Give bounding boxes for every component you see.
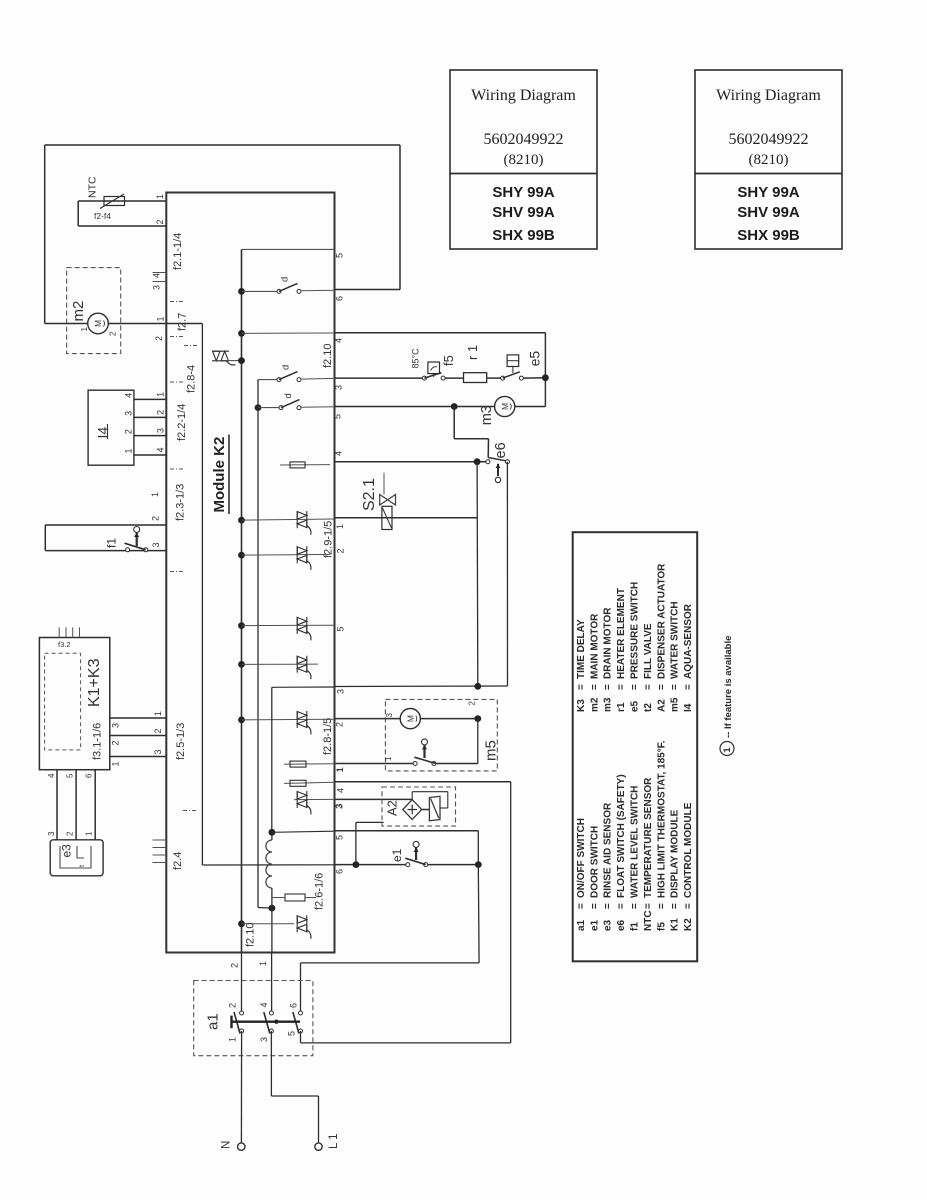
svg-text:m5: m5 [670,697,681,712]
e1 plunger [413,841,419,847]
note: if feature available [720,742,734,756]
title box [695,70,842,249]
svg-text:1: 1 [155,392,165,397]
d switch 1 [238,288,245,295]
group separators [170,301,183,303]
svg-text:r1: r1 [616,702,627,712]
svg-text:SHX 99B: SHX 99B [492,227,555,244]
NTC resistor body [104,197,125,206]
svg-text:=: = [683,903,694,909]
svg-text:6: 6 [335,869,345,874]
wire pin5 y=830.8 [335,830,479,832]
svg-text:3: 3 [124,411,134,416]
svg-text:85°C: 85°C [411,348,421,369]
wire+triac y=664.4 [238,661,245,668]
wire m5 motor y=718.6 [335,718,401,720]
svg-text:A2: A2 [656,699,667,712]
terminal N [238,1143,245,1150]
f2.4 stubs [153,839,167,841]
a1 pole 2 [269,1011,273,1015]
wire heater loop top [335,332,546,334]
triac a [297,617,311,641]
svg-text:e5: e5 [630,700,641,712]
wire y=1042.9 [301,1042,511,1044]
svg-text:Wiring Diagram: Wiring Diagram [716,87,821,104]
wire+triac y=520 [238,517,245,524]
svg-text:1: 1 [335,767,345,772]
wire A2 y=799.4 [335,798,413,800]
svg-text:HEATER ELEMENT: HEATER ELEMENT [616,588,627,679]
wire pin5 from coil top [272,831,335,832]
legend box [573,532,698,961]
svg-text:e6: e6 [493,442,509,458]
resistor on e6 wire inside module [280,464,330,466]
svg-text:f2.8-1/5: f2.8-1/5 [322,718,334,755]
svg-text:=: = [576,684,587,690]
svg-text:K3: K3 [576,699,587,712]
triac c [297,711,311,735]
a1 pole 1 [240,1011,244,1015]
svg-text:f3.1-1/6: f3.1-1/6 [91,723,103,760]
svg-text:WATER LEVEL SWITCH: WATER LEVEL SWITCH [630,786,641,898]
svg-text:=: = [630,684,641,690]
svg-text:FLOAT SWITCH (SAFETY): FLOAT SWITCH (SAFETY) [616,774,627,898]
display module K1+K3 box [39,638,109,770]
svg-text:=: = [656,903,667,909]
svg-text:3: 3 [334,385,344,390]
NTC temperature sensor loop [78,200,166,202]
svg-text:a1: a1 [204,1013,221,1030]
a1 pole 3 [299,1011,303,1015]
triac f2.8-4 [212,351,236,365]
svg-text:=: = [616,684,627,690]
svg-text:2: 2 [65,831,74,836]
pressure switch e5 [501,376,505,380]
wire m3 y=406.5 [335,406,495,408]
control module K2 box [166,193,334,953]
svg-text:S2.1: S2.1 [361,478,378,511]
svg-text:e3: e3 [603,919,614,931]
svg-text:f2.1-1/4: f2.1-1/4 [172,233,184,270]
wire I4 pin 2 [134,435,166,437]
svg-text:5: 5 [333,414,343,419]
svg-text:DISPENSER ACTUATOR: DISPENSER ACTUATOR [656,563,667,679]
svg-text:2: 2 [151,516,161,521]
internal resistor y=897.5 [272,897,285,899]
svg-text:4: 4 [334,451,344,456]
suppression coil [266,840,272,888]
svg-text:WATER SWITCH: WATER SWITCH [670,601,681,679]
svg-text:RINSE AID SENSOR: RINSE AID SENSOR [603,802,614,898]
svg-text:AQUA-SENSOR: AQUA-SENSOR [683,603,694,679]
svg-text:2: 2 [228,1003,238,1008]
svg-text:1: 1 [156,316,166,321]
svg-text:-- If feature is available: -- If feature is available [723,636,734,738]
svg-text:f2-f4: f2-f4 [94,211,111,221]
svg-text:5: 5 [287,1031,297,1036]
A2 diamond [403,800,422,820]
vertical x=507.5 e6 to pin3 wire [506,462,508,686]
svg-text:e3: e3 [59,844,73,858]
svg-text:K1: K1 [670,918,681,931]
wire outer loop left [44,145,46,324]
svg-text:f2.10: f2.10 [322,344,334,368]
svg-text:=: = [589,903,600,909]
vertical to a1 pole3 top [477,865,480,963]
svg-text:d: d [280,365,291,370]
rinse aid sensor e3 box [50,840,103,876]
wire K1+K3 to module pin 1 [110,717,167,719]
svg-text:a1: a1 [576,919,587,931]
A2 loop wire [411,792,413,800]
svg-text:f3.2: f3.2 [58,640,71,649]
svg-text:=: = [603,903,614,909]
wire m2 left [45,323,88,325]
dispenser A2 dashed box [382,787,456,826]
motor m5 [400,709,420,729]
svg-text:4: 4 [334,338,344,343]
e6 actuating link [453,407,455,439]
svg-text:=: = [589,684,600,690]
wire y=781.7 [335,781,511,783]
svg-text:d: d [283,393,294,398]
motor m2 [88,313,109,334]
f1 plunger [134,527,140,533]
K1+K3 inner dashed [45,653,81,750]
inner box left edge [201,324,203,866]
triac f2.10 [238,920,245,927]
svg-text:=: = [576,903,587,909]
wires module to a1 [241,953,243,1012]
svg-text:1: 1 [111,761,121,766]
d switch 3 [255,404,262,411]
svg-text:ON/OFF SWITCH: ON/OFF SWITCH [576,818,587,898]
thermostat f5 [428,362,440,374]
svg-text:2: 2 [155,410,165,415]
svg-text:Module K2: Module K2 [211,437,228,513]
wire e6 y=461.7 [335,461,487,463]
svg-text:3: 3 [336,689,346,694]
svg-text:m2: m2 [70,301,87,322]
svg-text:3: 3 [151,542,161,547]
svg-text:=: = [683,684,694,690]
svg-text:6: 6 [335,296,345,301]
motor m3 [495,396,515,416]
svg-text:d: d [279,277,290,282]
inner box bottom wire [202,864,334,866]
svg-text:FILL VALVE: FILL VALVE [643,623,654,679]
svg-text:DISPLAY MODULE: DISPLAY MODULE [670,809,681,898]
coil line with dots [269,829,276,836]
svg-text:m5: m5 [482,740,499,761]
svg-text:TIME DELAY: TIME DELAY [576,619,587,679]
svg-text:SHV 99A: SHV 99A [737,204,800,221]
svg-text:f1: f1 [104,538,118,548]
internal resistor y=783.5 [284,782,335,783]
svg-text:SHY 99A: SHY 99A [492,184,554,201]
svg-text:NTC: NTC [643,910,654,931]
wire+triac y=555 [238,552,245,559]
svg-text:=: = [670,684,681,690]
svg-text:DRAIN MOTOR: DRAIN MOTOR [603,607,614,679]
svg-text:(8210): (8210) [504,152,544,168]
svg-text:f2.10: f2.10 [244,923,256,947]
triac f2.9 a [297,511,311,534]
svg-text:1: 1 [85,831,94,836]
svg-text:2: 2 [230,963,240,968]
inner wire to pin 5 [242,248,335,250]
svg-text:4: 4 [124,393,134,398]
A2 actuator link [422,809,430,811]
d switch 2 [258,379,277,381]
svg-text:f2.7: f2.7 [176,313,188,331]
svg-text:3: 3 [47,831,56,836]
wire K1+K3 to module pin 3 [110,756,167,758]
svg-text:3: 3 [259,1037,269,1042]
water level switch f1 box/wires [45,524,166,526]
svg-text:5602049922: 5602049922 [729,131,809,148]
triac b [297,656,311,680]
on/off switch a1 dashed box [194,981,313,1056]
svg-text:3: 3 [153,749,163,754]
water switch m5 dashed box [385,699,497,771]
svg-text:e1: e1 [390,848,404,862]
svg-text:=: = [643,903,654,909]
svg-text:M: M [93,320,103,327]
svg-text:2: 2 [154,336,164,341]
svg-text:HIGH LIMIT THERMOSTAT, 185°F.: HIGH LIMIT THERMOSTAT, 185°F. [656,740,667,898]
svg-text:DOOR SWITCH: DOOR SWITCH [589,826,600,898]
e3 inner symbol [60,846,91,868]
K1+K3 top stubs [58,627,60,637]
f1 blade [125,543,146,550]
svg-text:1: 1 [384,756,393,761]
svg-text:5: 5 [335,835,345,840]
wire I4 pin 4 [134,398,166,400]
heater r1 [464,373,487,383]
svg-text:1: 1 [80,327,89,332]
svg-text:2: 2 [108,331,117,336]
svg-text:5: 5 [65,773,74,778]
e1 blade [405,858,425,864]
vertical x=477.8 [476,462,479,687]
svg-text:f2.6-1/6: f2.6-1/6 [313,873,325,910]
svg-text:4: 4 [155,447,165,452]
svg-text:4: 4 [259,1002,269,1007]
svg-text:f2.5-1/3: f2.5-1/3 [175,723,187,760]
svg-text:2: 2 [153,728,163,733]
aqua-sensor I4 box [88,390,134,465]
svg-text:I4: I4 [683,703,694,712]
svg-text:f2.9-1/5: f2.9-1/5 [322,521,334,558]
underline Module K2 [228,435,230,515]
wire to pin 4 [238,330,245,337]
wire pin3 y=686.5 [335,685,508,688]
svg-text:3: 3 [385,713,394,718]
e1 bypass loop [355,822,357,864]
svg-text:e6: e6 [616,919,627,931]
svg-text:2: 2 [467,701,476,706]
svg-text:2: 2 [155,219,165,224]
svg-text:M: M [500,403,510,410]
internal triac y=799.5 [294,798,335,800]
wire+triac y=719.9 [238,717,245,724]
wire I4 pin 3 [134,416,166,418]
NTC diagonal [100,194,124,209]
svg-text:3: 3 [334,803,344,808]
wire S2.1 y=517.7 [335,517,478,519]
svg-text:1: 1 [150,492,160,497]
svg-text:PRESSURE SWITCH: PRESSURE SWITCH [630,582,641,679]
e6 blade [488,458,505,461]
svg-text:f1: f1 [630,922,641,931]
svg-text:1: 1 [124,448,134,453]
wire heater components y=378 [335,377,423,379]
svg-text:Wiring Diagram: Wiring Diagram [471,87,576,104]
svg-text:=: = [630,903,641,909]
main motor m2 dashed box [67,268,121,354]
svg-text:4: 4 [152,273,162,278]
svg-text:e5: e5 [527,351,543,367]
svg-text:(8210): (8210) [749,152,789,168]
wire m5 switch y=763.5 [335,763,414,765]
svg-text:f5: f5 [656,922,667,931]
svg-text:2: 2 [111,740,121,745]
svg-text:f2.3-1/3: f2.3-1/3 [174,484,186,521]
svg-text:4: 4 [336,788,346,793]
svg-text:CONTROL MODULE: CONTROL MODULE [683,802,694,898]
wire m2 right [108,323,202,325]
m5 plunger [422,739,428,745]
triac f2.9 b [297,546,311,570]
svg-text:3: 3 [111,723,121,728]
svg-text:1: 1 [722,747,732,752]
svg-text:SHY 99A: SHY 99A [737,184,799,201]
e6 float plunger [497,464,499,476]
svg-text:5: 5 [335,253,345,258]
svg-text:m2: m2 [589,697,600,712]
svg-text:m3: m3 [603,697,614,712]
svg-text:=: = [656,684,667,690]
svg-text:SHX 99B: SHX 99B [737,227,800,244]
svg-text:3: 3 [152,285,162,290]
svg-text:3: 3 [155,428,165,433]
wire outer loop top [45,144,400,146]
svg-text:=: = [670,903,681,909]
title box [450,70,597,249]
terminal L1 [315,1143,322,1150]
svg-text:=: = [643,684,654,690]
svg-text:r 1: r 1 [465,345,480,360]
svg-text:6: 6 [85,773,94,778]
svg-text:1: 1 [228,1037,238,1042]
wire to N [240,1031,242,1143]
svg-text:4: 4 [47,773,56,778]
internal line x=258 [257,380,259,908]
stub pins 4 3 [153,272,167,274]
svg-text:MAIN MOTOR: MAIN MOTOR [589,613,600,679]
wire below coil to module edge [271,908,273,952]
svg-text:NTC: NTC [86,176,98,198]
internal bus line [241,249,243,952]
inner box 2 corner [272,686,335,688]
svg-text:1: 1 [258,961,268,966]
svg-text:5602049922: 5602049922 [484,131,564,148]
svg-text:5: 5 [336,626,346,631]
svg-text:SHV 99A: SHV 99A [492,204,555,221]
wire+triac y=625.6 [238,622,245,629]
long vertical x=510.7 [510,782,512,1043]
wire to L1 [270,1031,272,1096]
wires K1+K3 to e3 [56,770,58,840]
svg-text:1: 1 [155,194,165,199]
svg-text:m3: m3 [479,405,495,425]
svg-text:K1+K3: K1+K3 [86,658,103,707]
svg-text:f2.4: f2.4 [172,852,184,870]
svg-text:f2.2-1/4: f2.2-1/4 [176,404,188,441]
wire I4 pin 1 [134,454,166,456]
wire K1+K3 to module pin 2 [110,735,167,737]
svg-text:e1: e1 [589,919,600,931]
wire a1 pole3 bottom [300,1031,302,1043]
svg-text:I4: I4 [95,427,111,439]
internal resistor y=764 [284,763,335,765]
svg-text:1: 1 [335,524,345,529]
svg-text:A2: A2 [385,800,400,816]
svg-text:=: = [603,684,614,690]
svg-text:TEMPERATURE SENSOR: TEMPERATURE SENSOR [643,777,654,898]
svg-text:2: 2 [335,722,345,727]
svg-text:f2.8-4: f2.8-4 [185,365,197,393]
svg-text:L 1: L 1 [328,1133,340,1149]
svg-text:M: M [406,715,416,722]
svg-text:f5: f5 [441,355,456,366]
svg-text:1: 1 [153,711,163,716]
A2 actuator parallelogram [429,796,440,820]
a1 linkage bar [232,1021,301,1023]
svg-text:t2: t2 [643,703,654,712]
svg-text:2: 2 [124,429,134,434]
wire pin6 y=864.6 [335,864,406,866]
svg-text:2: 2 [336,548,346,553]
svg-text:N: N [221,1141,233,1149]
svg-text:6: 6 [289,1003,299,1008]
svg-text:K2: K2 [683,918,694,931]
svg-text:=: = [616,903,627,909]
